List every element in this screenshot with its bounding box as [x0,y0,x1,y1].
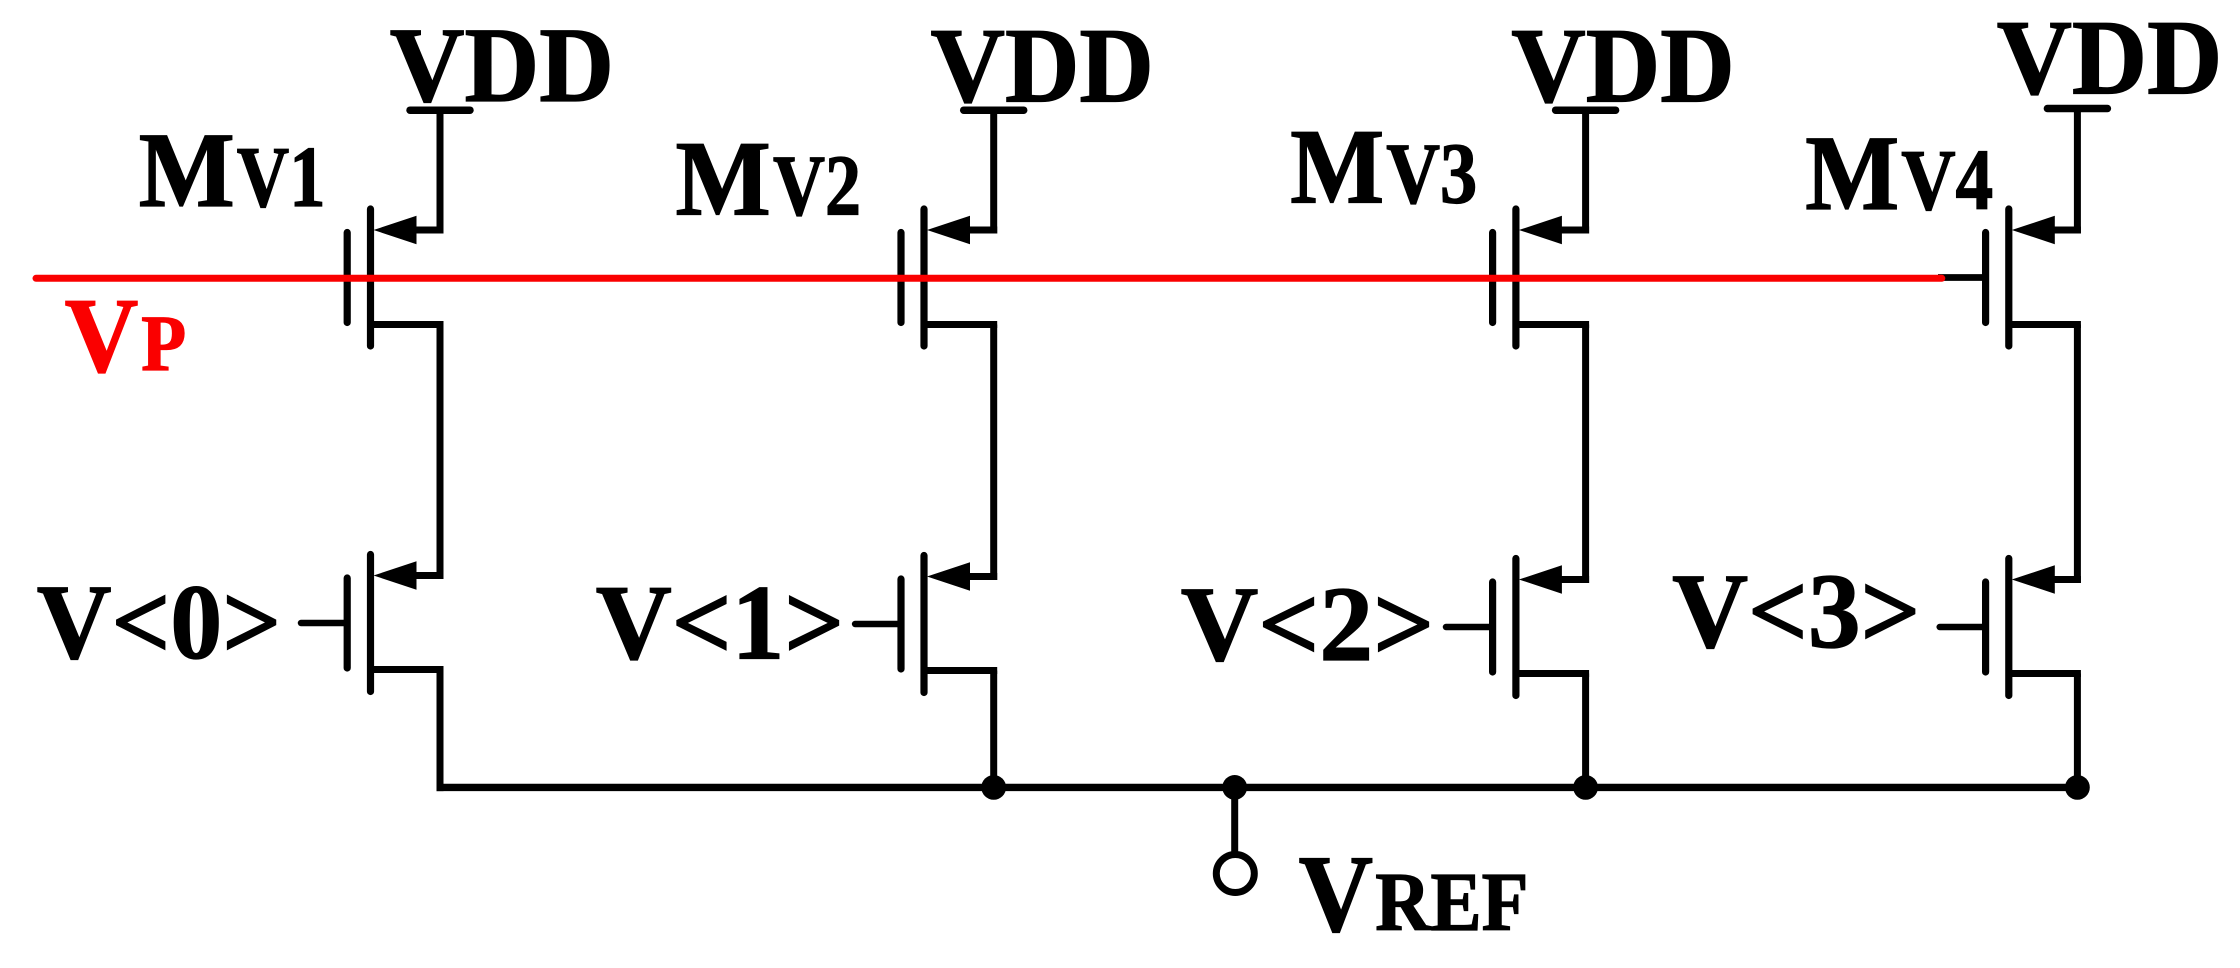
wire drain of bottom transistor 3 down to VREF rail [1582,674,1589,792]
transistor M_V4: channel bar [2005,209,2012,346]
node VP: red gate bus line [36,275,1942,282]
svg-text:M: M [139,112,235,230]
VDD supply bar (column 2) [964,106,1024,114]
bottom transistor 3: drain wire [1518,670,1589,677]
svg-text:V: V [65,278,139,396]
wire drain of bottom transistor 4 down to VREF rail [2074,674,2081,792]
transistor M_V3: drain wire [1518,321,1589,328]
VREF terminal stub wire [1231,787,1238,851]
svg-text:VDD: VDD [1511,8,1734,126]
transistor label M_V3 [1290,109,1477,227]
svg-text:V<1>: V<1> [596,565,845,683]
wire drain of bottom transistor 1 down to VREF rail [437,670,444,792]
wire drain M_V2 to source of bottom transistor 2 [990,325,997,581]
transistor label M_V4 [1805,115,1993,233]
transistor M_V1: gate bar [344,233,351,323]
bottom transistor 4: channel bar [2005,559,2012,696]
bottom transistor 1 (gate V&lt;0&gt;): source wire + arrow [409,572,444,579]
svg-text:V<2>: V<2> [1181,566,1435,684]
bottom transistor 1: drain wire [373,666,444,673]
wire VDD bar to source of M_V1 [437,110,444,233]
VREF terminal open circle [1216,855,1254,893]
junction dot: VREF tap on VREF rail [1222,775,1247,800]
wire drain of bottom transistor 2 down to VREF rail [990,671,997,792]
wire drain M_V3 to source of bottom transistor 3 [1582,325,1589,584]
bottom transistor 4: gate bar [1982,582,1989,672]
svg-text:V<3>: V<3> [1672,553,1920,671]
bottom transistor 3: channel bar [1512,559,1519,696]
transistor M_V3: gate bar [1489,233,1496,323]
wire VDD bar to source of M_V4 [2074,109,2081,234]
transistor M_V4: gate bar [1982,233,1989,323]
wire VDD bar to source of M_V3 [1582,110,1589,233]
bottom transistor 1: gate bar [344,578,351,668]
transistor M_V3: channel bar [1512,209,1519,346]
transistor M_V2: drain wire [926,321,997,328]
transistor M_V4 (PMOS): source wire + arrow [2047,227,2081,234]
wire VDD bar to source of M_V2 [990,110,997,233]
transistor M_V1: drain wire [373,321,444,328]
transistor M_V2 (PMOS): source wire + arrow [962,227,997,234]
bottom transistor 2: drain wire [926,667,997,674]
svg-text:M: M [1290,109,1384,227]
transistor M_V2: channel bar [920,209,927,346]
svg-text:M: M [676,121,771,239]
transistor M_V3 (PMOS): source wire + arrow [1554,227,1589,234]
svg-text:P: P [141,301,186,388]
bottom transistor 2: channel bar [920,556,927,693]
svg-text:REF: REF [1375,856,1528,949]
transistor M_V2: gate bar [897,233,904,323]
bottom transistor 2: gate lead wire from V&lt;1&gt; [855,621,901,628]
svg-text:V4: V4 [1901,131,1993,228]
transistor M_V1 (PMOS): source wire + arrow [409,227,444,234]
svg-text:V1: V1 [237,128,326,225]
VREF rail wire (common bottom node) [437,784,2081,791]
svg-text:V: V [1299,833,1373,955]
bottom transistor 4 (gate V&lt;3&gt;): source wire + arrow [2047,576,2081,583]
bottom transistor 1: gate lead wire from V&lt;0&gt; [301,620,347,627]
wire VP line end to gate of M_V4 [1938,274,1986,281]
bottom transistor 3: gate lead wire from V&lt;2&gt; [1446,624,1493,631]
svg-text:M: M [1805,115,1899,233]
junction dot: column 3 drain on VREF rail [1573,775,1598,800]
net label VP (red) [65,278,187,396]
net label VREF [1299,833,1529,955]
wire drain M_V1 to source of bottom transistor 1 [437,325,444,580]
VDD supply bar (column 1) [410,106,470,114]
junction dot: column 4 drain on VREF rail [2065,775,2090,800]
bottom transistor 4: drain wire [2011,670,2081,677]
transistor label M_V1 [139,112,326,230]
svg-text:V<0>: V<0> [37,564,282,682]
bottom transistor 2: gate bar [897,579,904,669]
bottom transistor 3: gate bar [1489,582,1496,672]
transistor M_V4: drain wire [2011,321,2081,328]
VDD supply bar (column 4) [2047,105,2107,113]
bottom transistor 1: channel bar [367,555,374,692]
bottom transistor 2 (gate V&lt;1&gt;): source wire + arrow [962,573,997,580]
svg-text:VDD: VDD [1997,0,2223,118]
junction dot: column 2 drain on VREF rail [981,775,1006,800]
wire drain M_V4 to source of bottom transistor 4 [2074,325,2081,584]
svg-text:V3: V3 [1386,125,1477,222]
svg-text:V2: V2 [773,137,861,234]
VDD supply bar (column 3) [1556,106,1616,114]
transistor label M_V2 [676,121,862,239]
bottom transistor 3 (gate V&lt;2&gt;): source wire + arrow [1554,576,1589,583]
bottom transistor 4: gate lead wire from V&lt;3&gt; [1940,624,1986,631]
transistor M_V1: channel bar [367,209,374,346]
